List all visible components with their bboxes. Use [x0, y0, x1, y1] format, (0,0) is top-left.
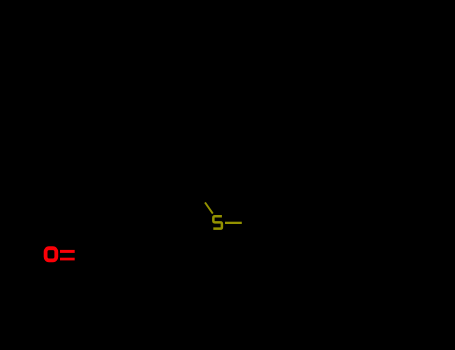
bond S–C (diagonal, from chain carbon down-right into S) [205, 202, 213, 213]
atom O (ketone oxygen label) [46, 248, 57, 260]
double bond C=O (two parallel red bars) [60, 250, 75, 261]
atom S (thioether sulfur label) [213, 216, 222, 228]
bond S–CH3 (horizontal, to the right of S) [225, 222, 242, 224]
